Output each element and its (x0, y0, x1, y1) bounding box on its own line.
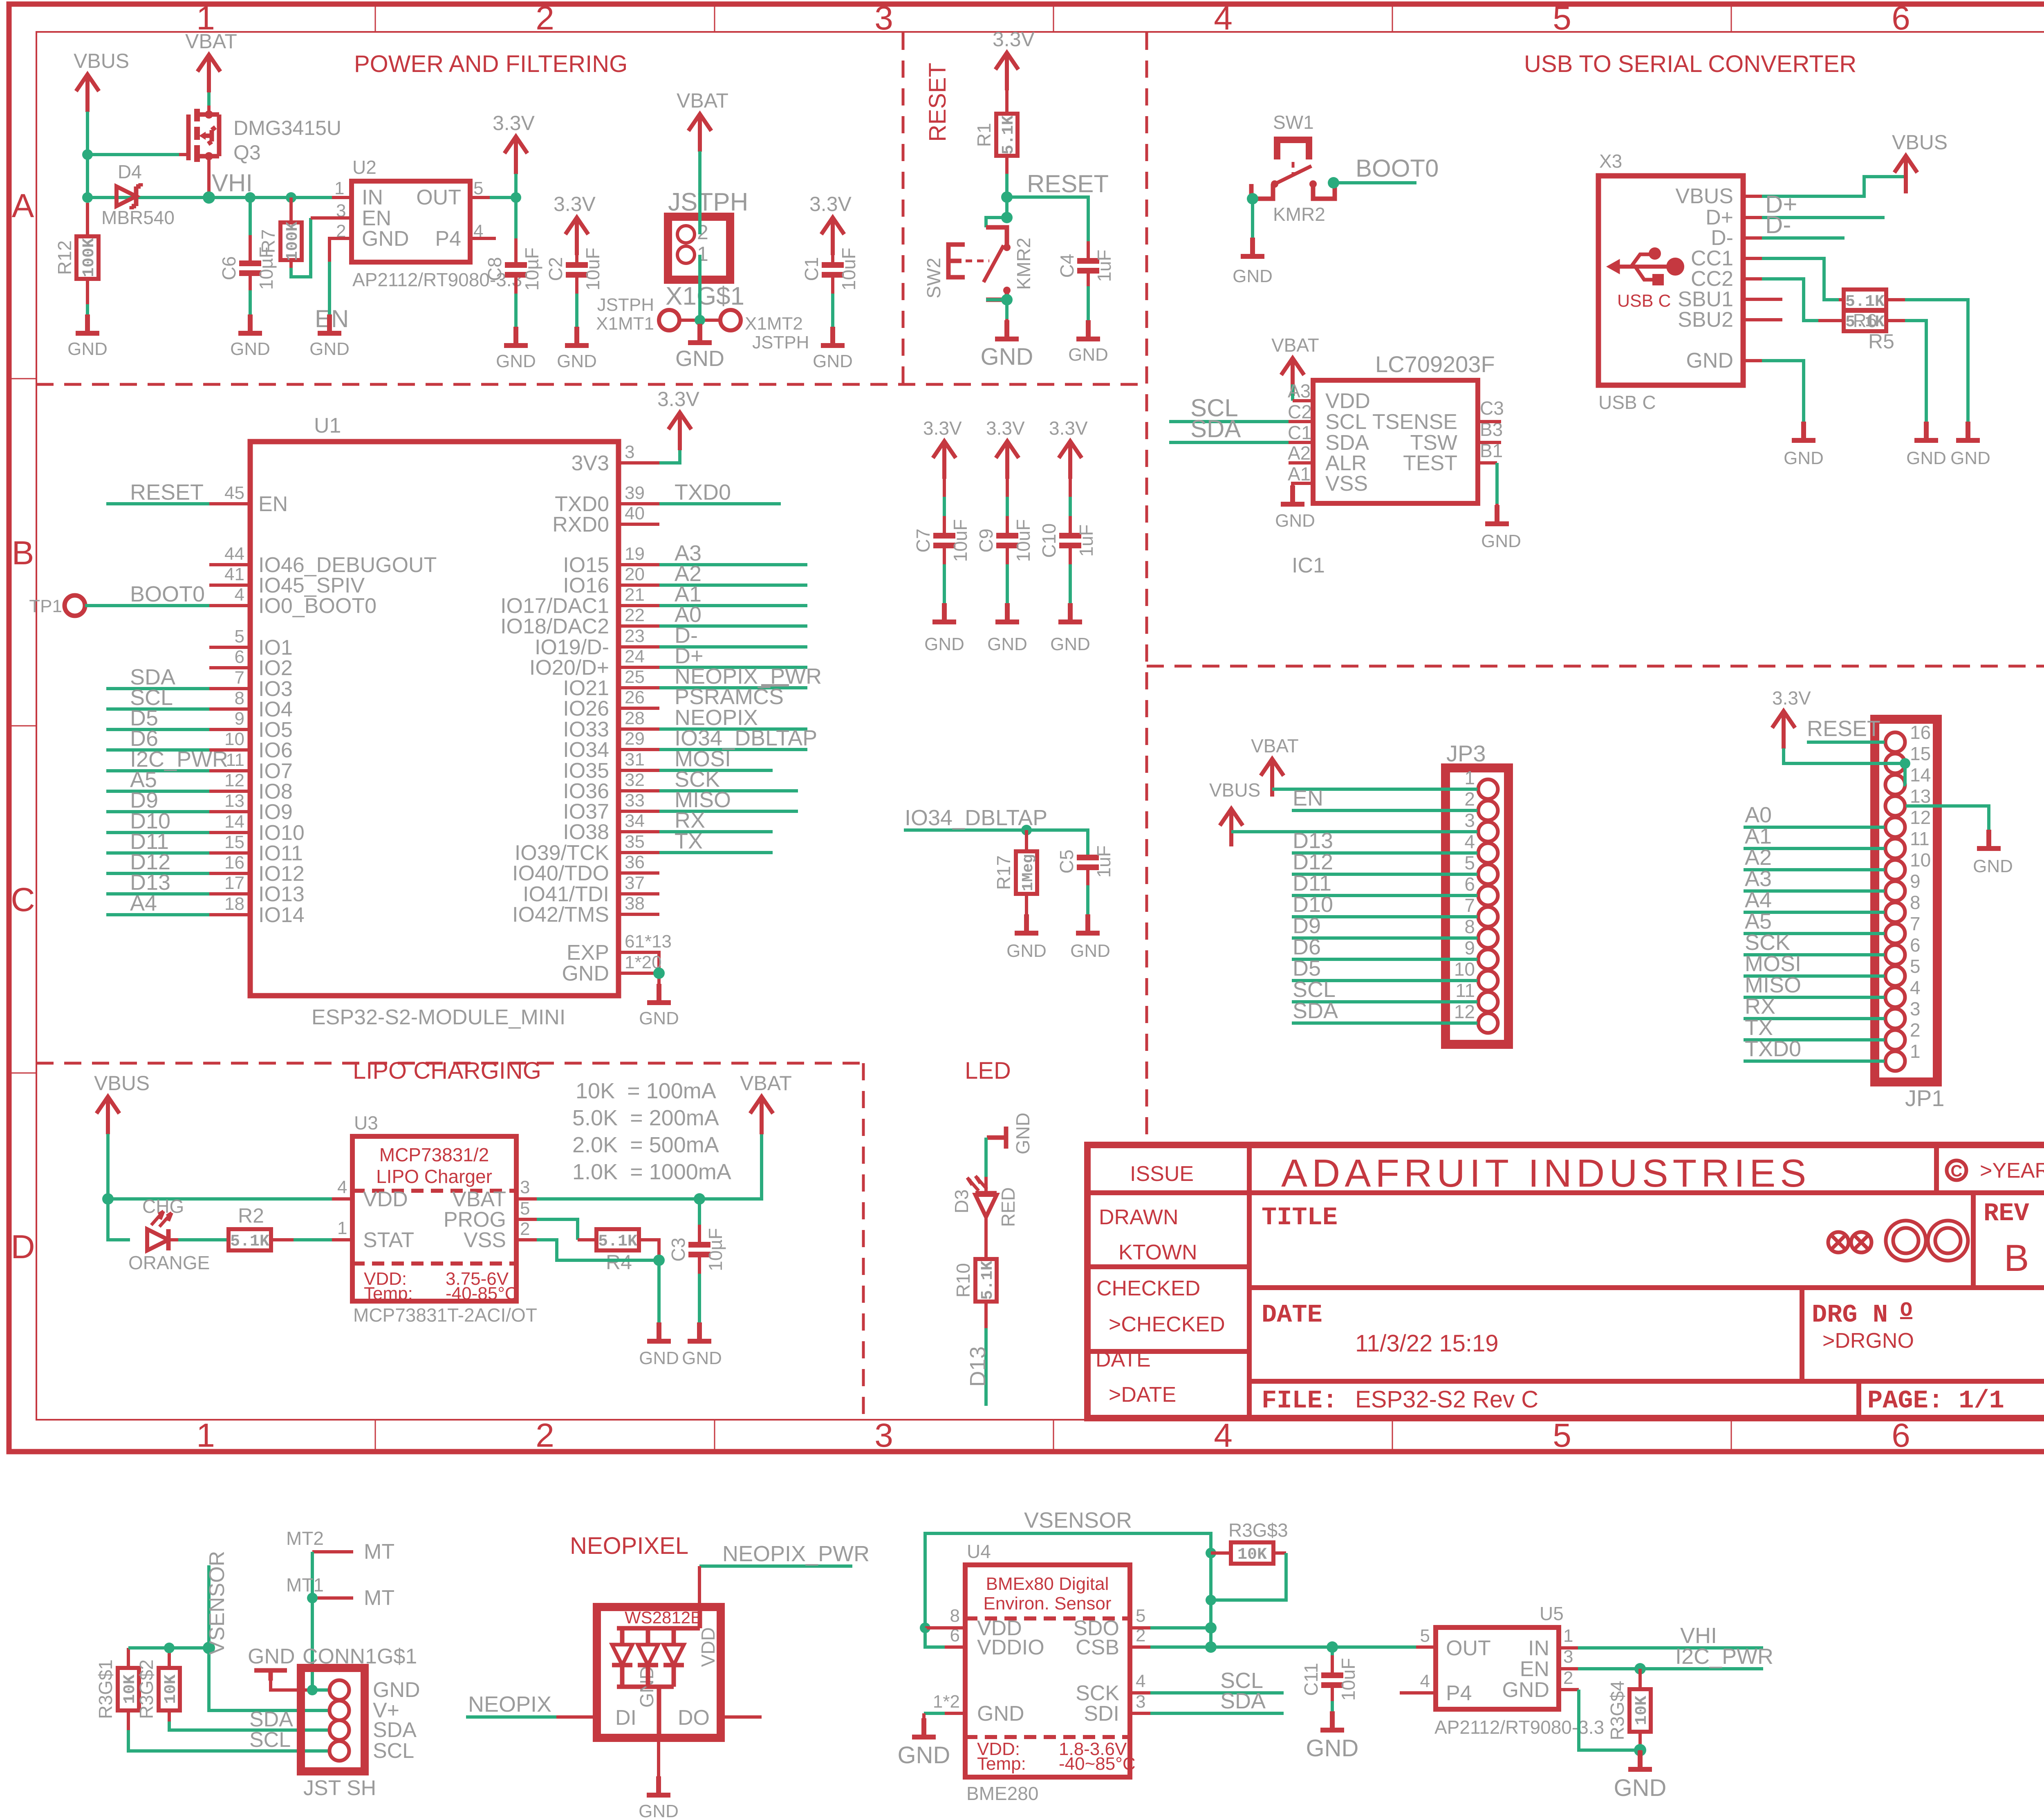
capacitor C6 (218, 198, 277, 333)
svg-text:JSTPH: JSTPH (597, 295, 654, 315)
neopixel NEO1 WS2812B (597, 1607, 721, 1738)
svg-text:ADAFRUIT INDUSTRIES: ADAFRUIT INDUSTRIES (1281, 1151, 1811, 1195)
svg-text:X1MT1: X1MT1 (596, 314, 654, 334)
svg-text:2: 2 (1563, 1668, 1573, 1688)
svg-text:3.3V: 3.3V (1772, 687, 1811, 709)
svg-text:VDD: VDD (363, 1187, 408, 1211)
svg-text:3.3V: 3.3V (554, 193, 596, 215)
pin 44 U1 IO46_DEBUGOUT (209, 563, 250, 566)
wire JP3 pin11 SCL (1292, 1000, 1477, 1003)
pin 6 U1 IO2 (209, 666, 250, 669)
node junction R4/VSS (653, 1255, 665, 1266)
logo crossed circle 2 (1851, 1232, 1871, 1252)
pin 5 U1 IO1 (209, 646, 250, 649)
node junction R3G$3 left (1206, 1548, 1216, 1558)
svg-text:13: 13 (1910, 786, 1931, 807)
ground CONN (inverted) (248, 1645, 312, 1690)
svg-text:O: O (1900, 1299, 1912, 1322)
node junction VHI-Q3 (203, 191, 215, 204)
resistor R2 (168, 1204, 352, 1251)
wire JP3 pin7 D10 (1292, 915, 1477, 918)
title block left rows (1087, 1267, 1249, 1351)
wire JP1 pin13 GND (1906, 806, 1989, 834)
ground LED (rotated) (987, 1113, 1033, 1154)
svg-text:GND: GND (496, 351, 536, 371)
ground U1 (639, 984, 679, 1028)
ground C4 (1068, 320, 1108, 365)
svg-text:GND: GND (1614, 1775, 1667, 1801)
svg-text:R2: R2 (238, 1204, 264, 1227)
wire JP3 pin4 D13 (1292, 851, 1477, 855)
svg-text:D12: D12 (1293, 850, 1333, 874)
svg-text:GND: GND (362, 227, 409, 251)
wire SW1 to gnd (1251, 199, 1254, 241)
svg-text:P4: P4 (435, 227, 461, 251)
svg-text:4: 4 (1910, 977, 1921, 998)
svg-text:61*13: 61*13 (625, 931, 672, 952)
svg-text:D11: D11 (1293, 871, 1331, 896)
svg-text:1: 1 (1910, 1041, 1921, 1062)
svg-text:4: 4 (1420, 1671, 1430, 1691)
svg-text:7: 7 (1910, 913, 1921, 934)
svg-text:RESET: RESET (1027, 170, 1109, 198)
capacitor C2 (545, 248, 603, 346)
pin stub U2 P4 (470, 237, 496, 240)
svg-text:JST SH: JST SH (303, 1776, 376, 1800)
svg-text:1: 1 (1464, 767, 1475, 788)
wire SCL to conn (128, 1730, 329, 1751)
ground U2 (309, 314, 350, 359)
resistor R3G$3 (1211, 1519, 1288, 1600)
svg-text:A: A (12, 187, 34, 224)
svg-text:10K = 100mA: 10K = 100mA (576, 1079, 716, 1103)
svg-text:MT: MT (364, 1586, 394, 1610)
svg-text:100K: 100K (80, 238, 99, 277)
svg-text:A1: A1 (1288, 463, 1311, 485)
svg-text:1.0K = 1000mA: 1.0K = 1000mA (572, 1160, 731, 1184)
frame column ticks top (375, 5, 1731, 32)
pin stub U4 GND (945, 1712, 965, 1715)
svg-text:GND: GND (230, 339, 270, 359)
svg-text:5: 5 (235, 626, 244, 646)
svg-text:MT: MT (364, 1540, 394, 1564)
svg-text:NEOPIXEL: NEOPIXEL (570, 1533, 688, 1559)
title block rev cell separator (1971, 1193, 1976, 1288)
ground C3 (682, 1322, 722, 1368)
svg-text:MISO: MISO (1745, 973, 1801, 997)
title block outer (1087, 1145, 2044, 1418)
svg-text:5: 5 (1553, 0, 1571, 37)
svg-text:24: 24 (625, 646, 645, 667)
section divider dashed led left (862, 1063, 865, 1419)
wire JP1 TXD0 (1744, 1059, 1885, 1063)
svg-text:5.1K: 5.1K (230, 1232, 269, 1251)
svg-text:IO42/TMS: IO42/TMS (512, 903, 609, 927)
wire VBAT to A3 (1291, 384, 1294, 401)
svg-text:R3G$4: R3G$4 (1607, 1681, 1628, 1740)
node junction SW1 right (1328, 177, 1339, 189)
svg-text:GND: GND (67, 339, 108, 359)
svg-text:MT2: MT2 (286, 1528, 324, 1549)
capacitor C10 (1038, 478, 1097, 622)
svg-text:3: 3 (520, 1177, 530, 1197)
ground B1 (1481, 505, 1521, 551)
supply arrow VBUS (top-left) (74, 49, 129, 112)
svg-text:DO: DO (678, 1706, 710, 1730)
svg-text:23: 23 (625, 626, 645, 646)
svg-text:VSENSOR: VSENSOR (205, 1551, 229, 1655)
svg-text:4: 4 (337, 1177, 347, 1197)
pin 16 U1 IO12 (209, 872, 250, 875)
svg-text:OUT: OUT (1446, 1636, 1491, 1660)
supply arrow VBAT (U3) (740, 1072, 792, 1134)
wire JP1 SCK (1744, 953, 1885, 956)
svg-text:11: 11 (1455, 980, 1475, 1001)
svg-text:10uF: 10uF (838, 248, 859, 291)
capacitor C7 (912, 478, 971, 622)
svg-text:BOOT0: BOOT0 (1356, 155, 1439, 182)
resistor R6 (1839, 290, 1968, 440)
svg-text:LIPO Charger: LIPO Charger (376, 1166, 492, 1187)
svg-text:R17: R17 (993, 855, 1014, 890)
svg-text:>DATE: >DATE (1109, 1383, 1176, 1407)
capacitor C1 (801, 248, 859, 346)
svg-text:GND: GND (675, 346, 724, 371)
svg-text:R3G$1: R3G$1 (95, 1659, 116, 1719)
svg-text:VSS: VSS (464, 1228, 506, 1252)
regulator U2 AP2112 (334, 157, 522, 290)
svg-text:VBAT: VBAT (1251, 735, 1299, 756)
svg-text:R6: R6 (1853, 310, 1877, 331)
icon USB inside X3 (1607, 247, 1684, 285)
capacitor C4 (1056, 241, 1115, 339)
wire RESET to C4 (1007, 197, 1088, 241)
svg-text:3: 3 (1563, 1647, 1573, 1667)
svg-text:1: 1 (196, 1417, 215, 1454)
wire MT vertical (311, 1552, 314, 1690)
wire VSENSOR (sensor) (925, 1533, 1211, 1648)
ground X3 (1784, 422, 1824, 468)
pin stub U2 EN (311, 216, 352, 220)
pin 40 U1 RXD0 (619, 523, 659, 526)
diode neopixel LED3 (663, 1628, 684, 1687)
mount pad X1MT2 (720, 310, 741, 330)
diode neopixel LED2 (638, 1628, 658, 1687)
svg-text:3.3V: 3.3V (923, 417, 962, 439)
svg-text:R3G$3: R3G$3 (1228, 1519, 1288, 1541)
svg-text:TEST: TEST (1403, 451, 1457, 475)
node junction OUT-3.3V (511, 192, 521, 203)
resistor R5 (1818, 310, 1926, 440)
svg-text:NEOPIX: NEOPIX (468, 1692, 551, 1717)
svg-text:3.3V: 3.3V (809, 193, 852, 215)
svg-text:GND: GND (1502, 1678, 1549, 1702)
svg-text:B: B (12, 534, 34, 572)
wire JP1 TX (1744, 1038, 1885, 1041)
resistor R1 (973, 90, 1018, 218)
gauge IC1 (1288, 351, 1504, 577)
svg-text:SW1: SW1 (1273, 112, 1314, 133)
wire JP3 pin10 D5 (1292, 979, 1477, 982)
node junction VBUS-gate (82, 149, 93, 160)
wire JP3 pin3 VBUS (1231, 830, 1477, 833)
pin 7 U1 IO3 (209, 687, 250, 690)
resistor R3G$1 (95, 1648, 139, 1730)
svg-text:GND: GND (1233, 266, 1273, 286)
supply arrow VBUS (usb) (1892, 131, 1948, 193)
svg-text:MCP73831/2: MCP73831/2 (379, 1144, 489, 1165)
pin 29 U1 IO34 (619, 748, 659, 751)
svg-text:NEOPIX_PWR: NEOPIX_PWR (722, 1542, 870, 1566)
svg-text:TX: TX (1745, 1015, 1773, 1040)
wire U4 CSB / OUT net (1130, 1645, 1150, 1649)
pin 8 U1 IO4 (209, 707, 250, 711)
pin stub X3 D+ wire (1743, 216, 1762, 219)
svg-text:DATE: DATE (1096, 1348, 1151, 1371)
svg-text:34: 34 (625, 811, 645, 831)
pin 24 U1 IO20/D+ (619, 666, 659, 669)
led CHG ORANGE (128, 1196, 210, 1273)
svg-text:DI: DI (615, 1706, 637, 1730)
svg-text:GND: GND (1070, 941, 1110, 961)
pin stub X3 CC2 wire (1743, 277, 1762, 281)
svg-text:1uF: 1uF (1093, 845, 1114, 878)
pin EXP U1 (619, 952, 659, 973)
svg-text:RESET: RESET (924, 63, 951, 141)
svg-text:18: 18 (224, 894, 244, 914)
svg-text:10uF: 10uF (1338, 1658, 1359, 1701)
svg-text:5: 5 (473, 178, 483, 198)
wire VSENSOR top row (128, 1646, 209, 1650)
wire IO34_DBLTAP net (904, 830, 1088, 855)
pin 3 U1 3V3 (619, 461, 659, 465)
node junction EN-R3G$4 (1634, 1663, 1646, 1674)
pin stub X3 CC1 wire (1743, 257, 1762, 260)
svg-text:GND: GND (1050, 634, 1090, 654)
node junction C3 top (694, 1193, 705, 1205)
svg-text:9: 9 (235, 709, 244, 729)
svg-text:VBUS: VBUS (74, 49, 129, 72)
resistor R12 (54, 203, 99, 333)
svg-text:OUT: OUT (416, 186, 461, 209)
pin stub IC1 B3 (1478, 441, 1501, 444)
svg-text:IO13: IO13 (258, 882, 305, 906)
svg-text:D: D (11, 1228, 35, 1266)
pin 23 U1 IO19/D- (619, 645, 659, 649)
svg-text:10uF: 10uF (1013, 519, 1034, 562)
svg-text:10uF: 10uF (950, 519, 971, 562)
svg-text:3: 3 (1136, 1692, 1145, 1712)
pin stub U2 GND elbow (329, 238, 352, 262)
pin 19 U1 IO15 (619, 563, 659, 566)
svg-text:29: 29 (625, 729, 645, 749)
svg-text:4: 4 (1464, 831, 1475, 852)
svg-text:5: 5 (1553, 1417, 1571, 1454)
title block right rows (1249, 1288, 2044, 1381)
node junction SW1 left (1247, 193, 1258, 204)
svg-text:C4: C4 (1056, 254, 1078, 278)
supply arrow 3.3V (C9) (986, 417, 1025, 479)
svg-text:A0: A0 (1745, 803, 1772, 827)
svg-text:R12: R12 (54, 240, 75, 275)
svg-text:33: 33 (625, 790, 645, 810)
svg-text:3: 3 (874, 0, 893, 37)
supply arrow 3.3V (C7) (923, 417, 962, 479)
wire JP1 MOSI (1744, 974, 1885, 978)
svg-text:LIPO CHARGING: LIPO CHARGING (353, 1057, 541, 1084)
supply arrow VBAT (JP3) (1251, 735, 1299, 797)
svg-text:I2C_PWR: I2C_PWR (1675, 1644, 1773, 1669)
connector JP1 (1875, 719, 1945, 1111)
wire JP1 A0 (1744, 826, 1885, 829)
svg-text:D-: D- (1765, 211, 1791, 238)
copyright symbol and YEAR (1947, 1160, 1966, 1180)
svg-text:10K: 10K (162, 1674, 180, 1704)
wire VSENSOR vertical (209, 1565, 329, 1710)
svg-text:1*2: 1*2 (933, 1692, 960, 1712)
module U1 ESP32-S2-MODULE_MINI (250, 414, 619, 1029)
wire U4 SCK SCL (1130, 1691, 1150, 1695)
svg-text:GND: GND (1481, 531, 1521, 551)
svg-text:1: 1 (334, 178, 344, 198)
pin 41 U1 IO45_SPIV (209, 584, 250, 587)
svg-text:DMG3415U: DMG3415U (233, 117, 341, 139)
svg-text:C1: C1 (1288, 422, 1312, 443)
svg-text:C: C (1951, 1162, 1963, 1180)
pin stub DO (721, 1715, 762, 1719)
svg-text:14: 14 (224, 812, 244, 832)
svg-text:SCL: SCL (1293, 977, 1336, 1002)
wire X1 pin1 to gnd (698, 255, 702, 320)
svg-text:100K: 100K (284, 222, 302, 261)
wire U4 SDI SDA (1130, 1712, 1150, 1715)
svg-text:A2: A2 (1288, 442, 1311, 464)
svg-text:Temp:: Temp: (364, 1284, 413, 1304)
svg-text:VBAT: VBAT (677, 89, 728, 112)
svg-text:25: 25 (625, 667, 645, 687)
svg-text:SCL: SCL (373, 1739, 414, 1763)
svg-text:5.0K = 200mA: 5.0K = 200mA (572, 1106, 719, 1130)
svg-text:GND: GND (987, 634, 1027, 654)
svg-text:10K: 10K (1237, 1546, 1267, 1564)
svg-text:VBAT: VBAT (740, 1072, 792, 1095)
svg-text:14: 14 (1910, 764, 1931, 786)
svg-text:IO9: IO9 (258, 800, 293, 824)
svg-text:LED: LED (965, 1057, 1011, 1084)
svg-text:A3: A3 (1288, 380, 1311, 402)
connector X3 USB C (1598, 150, 1743, 413)
svg-text:6: 6 (1464, 873, 1475, 895)
svg-text:USB C: USB C (1598, 392, 1656, 413)
wire gate net (87, 153, 179, 156)
node junction R3G$3 bottom (1206, 1595, 1216, 1605)
svg-text:A4: A4 (1745, 888, 1772, 912)
ground C8 (496, 327, 536, 371)
svg-text:10K: 10K (1633, 1696, 1651, 1725)
section divider dashed reset left (902, 33, 905, 384)
ground R4 (639, 1322, 679, 1368)
ground IC1 (1275, 485, 1315, 531)
node junction VHI-C6 (245, 192, 255, 203)
wire U4 VDDIO (925, 1628, 945, 1647)
svg-text:C3: C3 (668, 1238, 689, 1262)
node junction VHI-R7 (286, 192, 296, 203)
svg-text:U2: U2 (352, 157, 377, 178)
svg-text:POWER AND FILTERING: POWER AND FILTERING (354, 51, 628, 77)
svg-text:-40-85°C: -40-85°C (446, 1284, 518, 1304)
svg-text:IC1: IC1 (1292, 554, 1325, 577)
pin 20 U1 IO16 (619, 584, 659, 587)
svg-text:VDDIO: VDDIO (977, 1636, 1044, 1659)
ground C10 (1050, 603, 1090, 654)
node junction RESET (1001, 191, 1013, 203)
svg-text:TX: TX (675, 829, 703, 853)
node junction MT1 (307, 1593, 318, 1603)
svg-text:1uF: 1uF (1094, 249, 1115, 282)
svg-text:PAGE: 1/1: PAGE: 1/1 (1867, 1386, 2004, 1415)
svg-text:MT1: MT1 (286, 1574, 324, 1596)
svg-text:C9: C9 (975, 529, 997, 553)
svg-text:11: 11 (226, 750, 244, 770)
svg-text:16: 16 (224, 853, 244, 873)
wire U3 VSS (516, 1238, 537, 1241)
svg-text:P4: P4 (1446, 1681, 1472, 1705)
svg-text:GND: GND (639, 1801, 679, 1818)
svg-text:GND: GND (924, 634, 964, 654)
svg-text:8: 8 (1910, 892, 1921, 913)
svg-text:GND: GND (309, 339, 350, 359)
svg-text:SDI: SDI (1084, 1702, 1119, 1726)
ground U4 (898, 1718, 950, 1769)
svg-text:RESET: RESET (1807, 716, 1880, 741)
wire VBUS vertical (86, 112, 89, 198)
svg-text:X1MT2: X1MT2 (745, 314, 803, 334)
svg-text:RED: RED (997, 1187, 1019, 1227)
svg-text:VBUS: VBUS (1675, 184, 1733, 208)
wire JP1 A1 (1744, 847, 1885, 850)
wire VHI rail (87, 196, 352, 199)
wire JP1 A4 (1744, 911, 1885, 914)
svg-text:IO6: IO6 (258, 738, 293, 762)
svg-text:10: 10 (224, 729, 244, 749)
svg-text:4: 4 (1214, 1417, 1233, 1454)
title block year cell separator (1934, 1145, 1939, 1193)
svg-text:U4: U4 (967, 1541, 991, 1562)
svg-text:C11: C11 (1300, 1663, 1322, 1696)
svg-text:CHECKED: CHECKED (1096, 1277, 1200, 1300)
svg-text:A2: A2 (1745, 845, 1772, 870)
pin stub IC1 A1/VSS to gnd (1293, 483, 1313, 504)
svg-text:36: 36 (625, 852, 645, 872)
ground C11 (1306, 1711, 1359, 1762)
svg-text:6: 6 (1892, 1417, 1910, 1454)
svg-text:REV: REV (1983, 1199, 2029, 1228)
svg-text:GND: GND (1275, 511, 1315, 531)
svg-text:A1: A1 (1745, 824, 1772, 848)
pin 21 U1 IO17/DAC1 (619, 604, 659, 607)
svg-text:JP1: JP1 (1905, 1085, 1945, 1111)
svg-text:3.3V: 3.3V (657, 388, 700, 411)
ground C6 (230, 314, 270, 359)
svg-text:DRG N: DRG N (1812, 1300, 1888, 1329)
svg-text:1Meg: 1Meg (1020, 854, 1037, 891)
supply arrow 3.3V (C1) (809, 193, 852, 255)
ground C5 (1070, 914, 1110, 961)
svg-text:22: 22 (625, 605, 645, 625)
node junction R17 (1021, 825, 1032, 835)
diode D4 MBR540 (101, 161, 175, 228)
section divider dashed power bottom (36, 383, 1147, 386)
